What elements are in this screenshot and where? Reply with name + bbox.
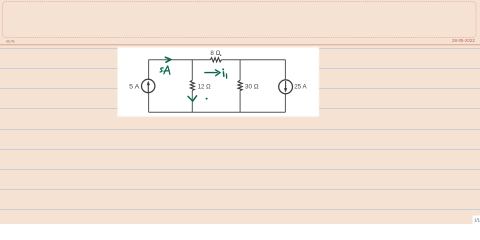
annotation: handwritten 5A: [160, 66, 170, 75]
current source I=25A (right, arrow down): [279, 80, 293, 94]
wire: top right segment (resistor 8ohm to node C): [221, 59, 285, 61]
svg-text:Note Title: Note Title: [6, 39, 15, 43]
wire: left branch (through 5A source): [148, 60, 150, 112]
ruled line 5: [0, 129, 480, 131]
svg-text:30 Ω: 30 Ω: [245, 84, 259, 91]
page number chip 1/1: [473, 216, 480, 226]
svg-text:12 Ω: 12 Ω: [198, 84, 211, 91]
svg-text:28-05-2022: 28-05-2022: [452, 38, 476, 43]
annotation: green arrowhead on top-left wire: [165, 57, 171, 62]
annotation: dot of i: [222, 68, 224, 70]
wire: 30 ohm branch leads: [239, 60, 241, 112]
annotation: green ink dot: [206, 98, 208, 100]
wire: top left segment (node A to resistor 8ohm): [149, 59, 211, 61]
annotation: green arrow for current i1: [205, 70, 220, 76]
ruled line 7: [0, 169, 480, 171]
header separator line: [0, 44, 480, 46]
ruled line 6: [0, 149, 480, 151]
svg-text:5 A: 5 A: [129, 84, 140, 91]
ruled line 1: [0, 48, 480, 50]
resistor 12 ohm (middle branch): [190, 80, 194, 90]
resistor 30 ohm (right branch): [238, 80, 242, 90]
svg-text:8 Ω: 8 Ω: [210, 50, 220, 57]
title input dashed border box: [3, 2, 477, 38]
resistor 8 ohm (top): [210, 58, 221, 62]
annotation: stray green ink tick near 8 ohm label: [220, 55, 222, 57]
ruled line 9: [0, 209, 480, 211]
wire: right branch (through 25A source): [284, 60, 286, 112]
wire: 12 ohm branch leads: [191, 60, 193, 112]
current source I=5A (left, arrow up): [142, 79, 155, 92]
ruled line 8: [0, 189, 480, 191]
ruled line 2: [0, 68, 480, 70]
pasted white figure background: [118, 47, 320, 116]
ruled line 4: [0, 108, 480, 110]
annotation: handwritten i: [222, 72, 225, 76]
annotation: green down arrowhead on 12 ohm branch: [188, 96, 197, 101]
wire: bottom rail: [149, 111, 286, 113]
svg-text:1/1: 1/1: [474, 217, 480, 222]
svg-text:25 A: 25 A: [294, 84, 307, 91]
ruled line 3: [0, 88, 480, 90]
annotation: subscript 1 of i1: [225, 74, 227, 78]
